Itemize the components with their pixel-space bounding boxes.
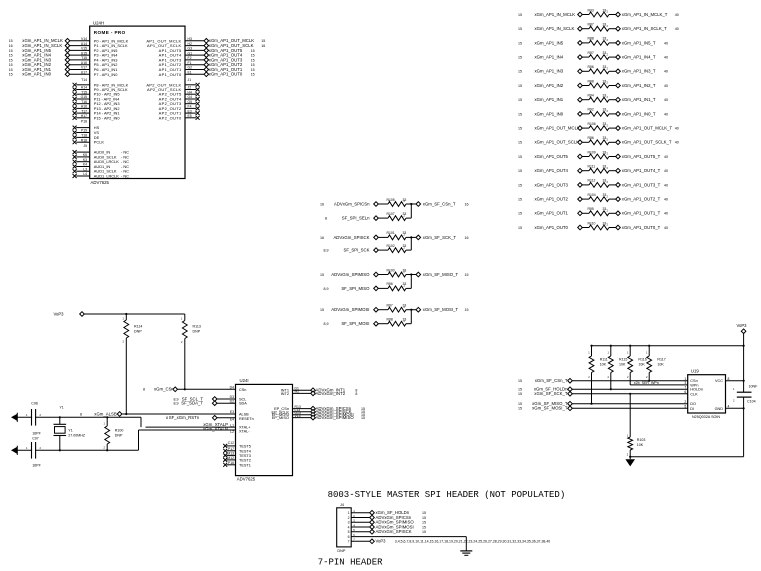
svg-text:15: 15 bbox=[518, 402, 522, 406]
svg-text:P17: P17 bbox=[228, 447, 234, 451]
svg-text:K5: K5 bbox=[83, 153, 87, 157]
svg-text:ADVxGm_SPISCK: ADVxGm_SPISCK bbox=[333, 235, 369, 240]
svg-text:4: 4 bbox=[728, 405, 730, 409]
svg-text:U15: U15 bbox=[81, 51, 87, 55]
svg-text:P19: P19 bbox=[81, 129, 87, 133]
svg-text:15: 15 bbox=[251, 68, 255, 72]
svg-text:15: 15 bbox=[422, 511, 426, 515]
svg-text:15: 15 bbox=[518, 155, 522, 159]
svg-text:E5: E5 bbox=[188, 114, 192, 118]
svg-text:HOLDn: HOLDn bbox=[690, 388, 703, 392]
svg-text:15: 15 bbox=[251, 54, 255, 58]
svg-text:15: 15 bbox=[9, 49, 13, 53]
svg-text:R100: R100 bbox=[115, 429, 124, 433]
svg-text:D2: D2 bbox=[230, 399, 234, 403]
svg-text:xGm_AP1_IN0: xGm_AP1_IN0 bbox=[22, 72, 51, 77]
svg-text:T17: T17 bbox=[81, 109, 87, 113]
svg-text:INT2: INT2 bbox=[281, 391, 289, 396]
svg-text:DI: DI bbox=[690, 407, 694, 411]
svg-text:- NC: - NC bbox=[121, 174, 129, 179]
svg-text:40: 40 bbox=[675, 127, 679, 131]
svg-text:E3: E3 bbox=[230, 410, 234, 414]
svg-text:DNP: DNP bbox=[193, 330, 201, 334]
svg-text:10K: 10K bbox=[600, 363, 607, 367]
svg-text:xGm_AP1_IN_SCLK: xGm_AP1_IN_SCLK bbox=[535, 26, 575, 31]
svg-text:15: 15 bbox=[518, 98, 522, 102]
svg-text:V15: V15 bbox=[81, 47, 87, 51]
svg-text:xGm_AP1_IN2_T: xGm_AP1_IN2_T bbox=[622, 83, 656, 88]
svg-text:15: 15 bbox=[251, 63, 255, 67]
svg-text:XTAL-: XTAL- bbox=[239, 430, 250, 434]
svg-text:xGm_AP1_OUT3: xGm_AP1_OUT3 bbox=[535, 182, 569, 187]
svg-text:L3: L3 bbox=[83, 167, 87, 171]
svg-text:xGm_AP1_IN1_T: xGm_AP1_IN1_T bbox=[622, 97, 656, 102]
svg-text:ADVxGm_SPIMISO: ADVxGm_SPIMISO bbox=[331, 272, 370, 277]
svg-text:15: 15 bbox=[251, 49, 255, 53]
svg-text:40: 40 bbox=[664, 70, 668, 74]
svg-text:xGm_AP1_OUT3_T: xGm_AP1_OUT3_T bbox=[622, 182, 661, 187]
svg-text:xGm_AP1_OUT1_T: xGm_AP1_OUT1_T bbox=[622, 211, 661, 216]
svg-text:L4: L4 bbox=[83, 172, 87, 176]
svg-text:L1: L1 bbox=[230, 423, 234, 427]
svg-text:40: 40 bbox=[664, 98, 668, 102]
svg-text:AUD1_LRCLK: AUD1_LRCLK bbox=[94, 174, 119, 179]
svg-text:RESETn: RESETn bbox=[239, 417, 254, 421]
svg-text:16: 16 bbox=[320, 202, 324, 206]
svg-text:15: 15 bbox=[518, 226, 522, 230]
svg-text:15: 15 bbox=[422, 530, 426, 534]
svg-text:10K: 10K bbox=[638, 363, 645, 367]
svg-text:xGm_SF_CSn_T: xGm_SF_CSn_T bbox=[423, 201, 456, 206]
svg-text:T15: T15 bbox=[81, 56, 87, 60]
svg-text:SF_SPI_MISO: SF_SPI_MISO bbox=[341, 286, 370, 291]
svg-text:EP_MISO: EP_MISO bbox=[272, 415, 289, 420]
svg-text:8: 8 bbox=[143, 388, 145, 392]
svg-text:2: 2 bbox=[684, 400, 686, 404]
svg-text:M12: M12 bbox=[227, 456, 234, 460]
svg-text:V13: V13 bbox=[295, 414, 301, 418]
svg-text:xGm_AP1_OUT0: xGm_AP1_OUT0 bbox=[209, 72, 243, 77]
svg-text:xGm_SF_MISO_T: xGm_SF_MISO_T bbox=[423, 272, 459, 277]
svg-text:15: 15 bbox=[518, 392, 522, 396]
svg-text:40: 40 bbox=[664, 41, 668, 45]
svg-text:ADV7625: ADV7625 bbox=[237, 477, 256, 482]
svg-text:16PF: 16PF bbox=[32, 463, 41, 467]
svg-text:xGm_AP1_IN5_T: xGm_AP1_IN5_T bbox=[622, 40, 656, 45]
svg-text:ADV7625: ADV7625 bbox=[91, 180, 110, 185]
svg-text:ADVxGm_SPISCK: ADVxGm_SPISCK bbox=[376, 529, 412, 534]
svg-text:D4: D4 bbox=[230, 386, 234, 390]
svg-text:U17: U17 bbox=[81, 71, 87, 75]
svg-text:M13: M13 bbox=[227, 452, 234, 456]
svg-text:C97: C97 bbox=[32, 436, 39, 440]
svg-text:xGm_AP1_IN4: xGm_AP1_IN4 bbox=[535, 55, 564, 60]
svg-text:R103: R103 bbox=[637, 438, 646, 442]
svg-text:x2b_SER_WPn: x2b_SER_WPn bbox=[634, 381, 659, 385]
svg-text:15: 15 bbox=[320, 273, 324, 277]
svg-text:8: 8 bbox=[325, 217, 327, 221]
svg-text:J2: J2 bbox=[188, 86, 192, 90]
svg-text:G4: G4 bbox=[188, 95, 193, 99]
svg-text:7-PIN HEADER: 7-PIN HEADER bbox=[318, 557, 383, 567]
svg-text:M2: M2 bbox=[295, 390, 300, 394]
svg-text:TEST3: TEST3 bbox=[239, 454, 251, 458]
svg-text:40: 40 bbox=[675, 27, 679, 31]
svg-text:ADVxGm_SPICSn: ADVxGm_SPICSn bbox=[334, 201, 370, 206]
svg-text:DO: DO bbox=[690, 402, 696, 406]
svg-text:xGm_SF_MOSI_T: xGm_SF_MOSI_T bbox=[423, 307, 459, 312]
svg-text:G2: G2 bbox=[188, 66, 193, 70]
svg-text:xGm_AP1_OUT_SCLK: xGm_AP1_OUT_SCLK bbox=[535, 140, 580, 145]
svg-text:H4: H4 bbox=[188, 90, 192, 94]
svg-text:xGm_CSn: xGm_CSn bbox=[154, 387, 174, 392]
svg-text:F2: F2 bbox=[188, 56, 192, 60]
svg-text:VoP3: VoP3 bbox=[736, 323, 747, 328]
svg-text:10NF: 10NF bbox=[749, 384, 759, 388]
svg-text:R116: R116 bbox=[638, 358, 646, 362]
svg-text:VCC: VCC bbox=[715, 379, 723, 383]
svg-text:5: 5 bbox=[348, 530, 350, 534]
svg-text:15: 15 bbox=[518, 127, 522, 131]
svg-text:8,9: 8,9 bbox=[324, 249, 329, 253]
svg-text:xGm_AP1_OUT_MCLK_T: xGm_AP1_OUT_MCLK_T bbox=[622, 126, 673, 131]
svg-text:40: 40 bbox=[675, 13, 679, 17]
svg-text:G15: G15 bbox=[81, 95, 88, 99]
svg-text:15: 15 bbox=[518, 56, 522, 60]
svg-text:T14: T14 bbox=[81, 78, 87, 82]
svg-text:15: 15 bbox=[518, 212, 522, 216]
svg-text:40: 40 bbox=[675, 141, 679, 145]
svg-text:15: 15 bbox=[361, 416, 365, 420]
svg-text:VoP3: VoP3 bbox=[53, 312, 64, 317]
svg-text:SF_SPI_SELn: SF_SPI_SELn bbox=[342, 216, 370, 221]
svg-text:40: 40 bbox=[664, 169, 668, 173]
svg-text:CSn: CSn bbox=[239, 388, 246, 392]
svg-text:C104: C104 bbox=[747, 399, 756, 403]
svg-text:U24H: U24H bbox=[93, 20, 104, 25]
svg-text:xGm_SF_CSn_T: xGm_SF_CSn_T bbox=[535, 378, 568, 383]
svg-text:SF_SPI_SCK: SF_SPI_SCK bbox=[343, 248, 369, 253]
svg-text:DNP: DNP bbox=[337, 549, 345, 553]
svg-text:15: 15 bbox=[518, 13, 522, 17]
svg-text:15: 15 bbox=[9, 58, 13, 62]
svg-text:8003-STYLE MASTER SPI HEADER (: 8003-STYLE MASTER SPI HEADER (NOT POPULA… bbox=[328, 490, 566, 500]
svg-text:xGm_AP1_OUT4_T: xGm_AP1_OUT4_T bbox=[622, 168, 661, 173]
svg-text:xGm_AP1_IN4_T: xGm_AP1_IN4_T bbox=[622, 55, 656, 60]
svg-text:7: 7 bbox=[684, 385, 686, 389]
svg-text:N25Q032A SOIN: N25Q032A SOIN bbox=[692, 415, 720, 419]
svg-text:8: 8 bbox=[728, 377, 730, 381]
svg-text:xGm_AP1_OUT5: xGm_AP1_OUT5 bbox=[535, 154, 569, 159]
svg-text:15: 15 bbox=[422, 516, 426, 520]
svg-text:xGm_AP1_IN_SCLK_T: xGm_AP1_IN_SCLK_T bbox=[622, 26, 667, 31]
svg-text:T15: T15 bbox=[81, 90, 87, 94]
svg-text:V14: V14 bbox=[81, 37, 87, 41]
svg-text:xGm_SF_SCK_T: xGm_SF_SCK_T bbox=[423, 235, 457, 240]
svg-text:xGm_AP1_OUT2: xGm_AP1_OUT2 bbox=[535, 197, 569, 202]
svg-text:Y1: Y1 bbox=[60, 405, 64, 409]
svg-text:2: 2 bbox=[348, 516, 350, 520]
svg-text:E1: E1 bbox=[188, 71, 192, 75]
svg-text:15: 15 bbox=[518, 379, 522, 383]
svg-text:V17: V17 bbox=[81, 66, 87, 70]
svg-text:TEST1: TEST1 bbox=[239, 463, 251, 467]
svg-text:15: 15 bbox=[9, 39, 13, 43]
svg-text:xGm_AP1_OUT2_T: xGm_AP1_OUT2_T bbox=[622, 197, 661, 202]
svg-text:R115: R115 bbox=[619, 358, 627, 362]
svg-text:15: 15 bbox=[518, 183, 522, 187]
svg-text:xGm_SF_SCK_T: xGm_SF_SCK_T bbox=[534, 391, 568, 396]
svg-text:TEST2: TEST2 bbox=[239, 458, 251, 462]
svg-text:xGm_AP1_OUT_SCLK_T: xGm_AP1_OUT_SCLK_T bbox=[622, 140, 672, 145]
svg-text:7: 7 bbox=[348, 540, 350, 544]
svg-text:SDA: SDA bbox=[239, 402, 247, 406]
svg-text:H3: H3 bbox=[188, 37, 192, 41]
svg-text:SF_SDA_T: SF_SDA_T bbox=[181, 401, 203, 406]
svg-text:DNP: DNP bbox=[115, 434, 123, 438]
svg-text:R113: R113 bbox=[193, 325, 201, 329]
svg-text:P7 - AP1_IN0: P7 - AP1_IN0 bbox=[94, 72, 118, 77]
svg-text:15: 15 bbox=[9, 73, 13, 77]
svg-text:T16: T16 bbox=[81, 100, 87, 104]
svg-text:ADVxGm_SPIMOSI: ADVxGm_SPIMOSI bbox=[331, 307, 369, 312]
svg-text:E3: E3 bbox=[188, 109, 192, 113]
svg-text:15: 15 bbox=[518, 198, 522, 202]
svg-text:ROME - PRO: ROME - PRO bbox=[94, 30, 126, 35]
svg-text:27.00MHZ: 27.00MHZ bbox=[68, 433, 86, 437]
svg-text:16: 16 bbox=[465, 236, 469, 240]
svg-text:AP2_OUT0: AP2_OUT0 bbox=[159, 115, 182, 120]
svg-text:10K: 10K bbox=[637, 443, 644, 447]
svg-text:16PF: 16PF bbox=[32, 431, 41, 435]
svg-text:40: 40 bbox=[664, 226, 668, 230]
svg-text:SF_SPI_MOSI: SF_SPI_MOSI bbox=[341, 321, 369, 326]
svg-text:P15 - AP2_IN0: P15 - AP2_IN0 bbox=[94, 115, 121, 120]
svg-text:15: 15 bbox=[518, 70, 522, 74]
svg-text:15: 15 bbox=[518, 141, 522, 145]
svg-text:K4: K4 bbox=[83, 163, 87, 167]
svg-text:xGm_AP1_IN3: xGm_AP1_IN3 bbox=[535, 69, 564, 74]
svg-text:TEST4: TEST4 bbox=[239, 449, 251, 453]
svg-text:R18: R18 bbox=[81, 138, 87, 142]
svg-text:10K: 10K bbox=[619, 363, 626, 367]
svg-text:16: 16 bbox=[9, 44, 13, 48]
svg-text:16: 16 bbox=[465, 202, 469, 206]
svg-text:H16: H16 bbox=[81, 105, 87, 109]
svg-text:3: 3 bbox=[348, 521, 350, 525]
svg-text:15: 15 bbox=[320, 308, 324, 312]
svg-text:15: 15 bbox=[422, 521, 426, 525]
svg-text:R111: R111 bbox=[600, 358, 608, 362]
svg-text:G3: G3 bbox=[188, 47, 193, 51]
svg-text:K3: K3 bbox=[83, 158, 87, 162]
svg-text:PCLK: PCLK bbox=[94, 140, 105, 145]
svg-text:H14: H14 bbox=[81, 86, 87, 90]
svg-text:15: 15 bbox=[9, 68, 13, 72]
svg-text:P16: P16 bbox=[228, 461, 234, 465]
svg-text:GND: GND bbox=[715, 407, 724, 411]
svg-text:ALSB: ALSB bbox=[239, 413, 249, 417]
svg-text:H2: H2 bbox=[188, 42, 192, 46]
svg-text:F4: F4 bbox=[188, 105, 192, 109]
svg-text:8,9: 8,9 bbox=[174, 402, 179, 406]
svg-text:U24I: U24I bbox=[240, 378, 249, 383]
svg-text:3,4,5,6,7,8,9,10,11,14,15,16,1: 3,4,5,6,7,8,9,10,11,14,15,16,17,18,19,20… bbox=[395, 540, 550, 544]
svg-text:xGm_AP1_IN0: xGm_AP1_IN0 bbox=[535, 111, 564, 116]
svg-text:T18: T18 bbox=[81, 134, 87, 138]
svg-text:xGm_AP1_OUT0: xGm_AP1_OUT0 bbox=[535, 225, 569, 230]
svg-text:DNP: DNP bbox=[134, 330, 142, 334]
svg-text:R114: R114 bbox=[134, 325, 142, 329]
svg-text:U19: U19 bbox=[691, 368, 699, 373]
svg-text:U14: U14 bbox=[81, 42, 87, 46]
svg-text:15: 15 bbox=[518, 169, 522, 173]
svg-text:8: 8 bbox=[166, 416, 168, 420]
svg-text:C12: C12 bbox=[228, 441, 234, 445]
svg-text:H17: H17 bbox=[81, 114, 87, 118]
svg-text:Y1: Y1 bbox=[68, 429, 72, 433]
svg-text:4: 4 bbox=[348, 525, 350, 529]
svg-text:J4: J4 bbox=[340, 503, 344, 507]
svg-text:15: 15 bbox=[261, 39, 265, 43]
svg-text:40: 40 bbox=[664, 84, 668, 88]
svg-text:40: 40 bbox=[664, 212, 668, 216]
svg-text:15: 15 bbox=[9, 63, 13, 67]
svg-text:40: 40 bbox=[664, 155, 668, 159]
svg-text:xGm_AP1_OUT5_T: xGm_AP1_OUT5_T bbox=[622, 154, 661, 159]
svg-text:15: 15 bbox=[518, 84, 522, 88]
svg-text:VoP3: VoP3 bbox=[376, 539, 387, 544]
svg-text:xGm_AP1_IN2: xGm_AP1_IN2 bbox=[535, 83, 564, 88]
svg-text:15: 15 bbox=[465, 308, 469, 312]
svg-text:16: 16 bbox=[320, 236, 324, 240]
svg-text:xGm_AP1_IN_MCLK: xGm_AP1_IN_MCLK bbox=[535, 12, 576, 17]
svg-text:TEST5: TEST5 bbox=[239, 444, 251, 448]
svg-text:15: 15 bbox=[9, 54, 13, 58]
svg-text:15: 15 bbox=[518, 388, 522, 392]
svg-text:xGm_AP1_OUT0_T: xGm_AP1_OUT0_T bbox=[622, 225, 661, 230]
svg-text:15: 15 bbox=[422, 525, 426, 529]
svg-text:F1: F1 bbox=[188, 61, 192, 65]
svg-text:ADVxGm_SPIMISO: ADVxGm_SPIMISO bbox=[316, 415, 355, 420]
svg-text:6: 6 bbox=[684, 390, 686, 394]
svg-text:xGm_AP1_IN1: xGm_AP1_IN1 bbox=[535, 97, 564, 102]
svg-text:6: 6 bbox=[348, 535, 350, 539]
svg-text:16: 16 bbox=[261, 44, 265, 48]
svg-text:40: 40 bbox=[664, 112, 668, 116]
svg-text:xGm_AP1_OUT1: xGm_AP1_OUT1 bbox=[535, 211, 569, 216]
svg-text:CLK: CLK bbox=[690, 392, 698, 396]
svg-text:15: 15 bbox=[518, 41, 522, 45]
svg-text:G5: G5 bbox=[188, 100, 193, 104]
svg-text:40: 40 bbox=[664, 198, 668, 202]
svg-text:ADVxGm_INT2: ADVxGm_INT2 bbox=[316, 391, 346, 396]
svg-text:15: 15 bbox=[518, 27, 522, 31]
svg-text:AP1_OUT0: AP1_OUT0 bbox=[159, 72, 182, 77]
svg-text:15: 15 bbox=[251, 73, 255, 77]
svg-text:15: 15 bbox=[251, 58, 255, 62]
svg-text:1: 1 bbox=[348, 511, 350, 515]
svg-text:J5: J5 bbox=[83, 144, 87, 148]
svg-text:xGm_AP1_IN3_T: xGm_AP1_IN3_T bbox=[622, 69, 656, 74]
svg-text:xGm_AP1_OUT_MCLK: xGm_AP1_OUT_MCLK bbox=[535, 126, 581, 131]
svg-text:SF_xGm_RSTn: SF_xGm_RSTn bbox=[169, 415, 200, 420]
svg-text:J1: J1 bbox=[188, 78, 192, 82]
svg-text:xGm_SF_MOSI_T: xGm_SF_MOSI_T bbox=[532, 406, 568, 411]
svg-text:8,9: 8,9 bbox=[324, 287, 329, 291]
svg-text:P18: P18 bbox=[81, 119, 87, 123]
svg-text:8,9: 8,9 bbox=[324, 322, 329, 326]
svg-text:xGm_AP1_IN_MCLK_T: xGm_AP1_IN_MCLK_T bbox=[622, 12, 668, 17]
svg-text:xGm_AP1_OUT4: xGm_AP1_OUT4 bbox=[535, 168, 569, 173]
svg-text:40: 40 bbox=[664, 183, 668, 187]
svg-text:5: 5 bbox=[684, 405, 686, 409]
svg-text:8: 8 bbox=[355, 392, 357, 396]
svg-text:xGm_ALSB: xGm_ALSB bbox=[94, 411, 117, 416]
svg-text:8: 8 bbox=[80, 412, 82, 416]
svg-text:L2: L2 bbox=[230, 430, 234, 434]
svg-text:R117: R117 bbox=[657, 358, 665, 362]
svg-text:10K: 10K bbox=[657, 363, 664, 367]
svg-text:xGm_AP1_IN0_T: xGm_AP1_IN0_T bbox=[622, 111, 656, 116]
svg-text:U16: U16 bbox=[81, 61, 87, 65]
svg-text:G1: G1 bbox=[188, 51, 193, 55]
svg-text:15: 15 bbox=[465, 273, 469, 277]
svg-text:C96: C96 bbox=[31, 401, 38, 405]
svg-text:xGm_AP1_IN5: xGm_AP1_IN5 bbox=[535, 40, 564, 45]
svg-text:15: 15 bbox=[518, 112, 522, 116]
svg-text:40: 40 bbox=[664, 56, 668, 60]
svg-text:15: 15 bbox=[518, 407, 522, 411]
svg-text:E4: E4 bbox=[230, 418, 234, 422]
